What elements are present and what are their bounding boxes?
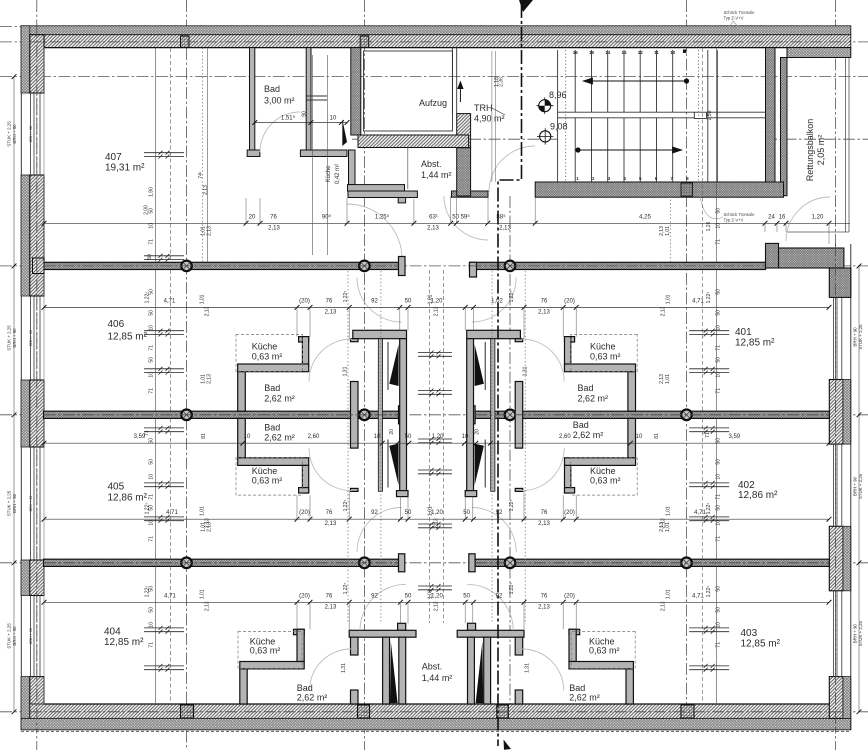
svg-text:0,63 m²: 0,63 m² xyxy=(252,476,283,486)
svg-text:Rettungsbalkon: Rettungsbalkon xyxy=(805,119,815,182)
svg-text:50: 50 xyxy=(147,254,153,260)
svg-text:BRH + 90: BRH + 90 xyxy=(853,327,858,347)
svg-text:50: 50 xyxy=(149,586,155,592)
svg-text:50: 50 xyxy=(149,310,155,316)
svg-text:92: 92 xyxy=(371,593,378,599)
svg-text:1,22⁵: 1,22⁵ xyxy=(706,586,712,598)
svg-text:2,62 m²: 2,62 m² xyxy=(297,692,328,702)
svg-text:20: 20 xyxy=(389,429,395,435)
svg-text:50: 50 xyxy=(149,438,155,444)
svg-text:BRH + 90: BRH + 90 xyxy=(12,493,17,513)
svg-text:81: 81 xyxy=(654,433,660,439)
svg-text:Küche: Küche xyxy=(590,342,616,352)
svg-text:4,25: 4,25 xyxy=(639,214,651,220)
svg-text:10: 10 xyxy=(149,622,155,628)
svg-text:STUK + 2,25: STUK + 2,25 xyxy=(7,121,12,147)
svg-text:2,62 m²: 2,62 m² xyxy=(573,430,604,440)
svg-text:20: 20 xyxy=(475,429,481,435)
svg-text:2,36: 2,36 xyxy=(498,77,504,87)
svg-text:Schöck Tronsole: Schöck Tronsole xyxy=(724,10,756,15)
svg-text:63¹: 63¹ xyxy=(429,214,438,220)
svg-text:12,85 m²: 12,85 m² xyxy=(741,638,781,649)
svg-text:Bad: Bad xyxy=(264,84,280,94)
svg-text:(20): (20) xyxy=(299,298,310,304)
svg-text:0,63 m²: 0,63 m² xyxy=(252,351,283,361)
svg-text:2,13: 2,13 xyxy=(427,225,439,231)
svg-text:10: 10 xyxy=(149,325,155,331)
svg-text:Bad: Bad xyxy=(573,420,589,430)
svg-text:Bad: Bad xyxy=(264,383,280,393)
svg-text:10: 10 xyxy=(149,474,155,480)
svg-text:20: 20 xyxy=(249,214,256,220)
svg-text:2,62 m²: 2,62 m² xyxy=(264,433,295,443)
svg-text:2,13: 2,13 xyxy=(538,604,550,610)
svg-text:10: 10 xyxy=(636,434,643,440)
svg-text:2,13: 2,13 xyxy=(659,522,665,532)
svg-text:2,13: 2,13 xyxy=(661,601,667,611)
svg-text:2,13: 2,13 xyxy=(206,374,212,384)
svg-text:402: 402 xyxy=(738,480,755,491)
svg-text:50: 50 xyxy=(463,510,470,516)
svg-text:50: 50 xyxy=(405,434,412,440)
svg-text:BRH + 90: BRH + 90 xyxy=(853,476,858,496)
svg-text:50: 50 xyxy=(405,593,412,599)
svg-text:11: 11 xyxy=(654,50,659,55)
svg-text:76: 76 xyxy=(270,214,277,220)
svg-text:16: 16 xyxy=(573,50,579,55)
svg-text:50: 50 xyxy=(149,505,155,511)
svg-text:1,01: 1,01 xyxy=(200,294,206,304)
svg-text:71: 71 xyxy=(149,494,155,500)
svg-text:1,01: 1,01 xyxy=(665,226,671,236)
svg-text:4,90 m²: 4,90 m² xyxy=(474,114,505,124)
svg-text:2,13: 2,13 xyxy=(206,522,212,532)
svg-text:1,22⁵: 1,22⁵ xyxy=(706,503,712,515)
svg-text:10: 10 xyxy=(462,434,469,440)
svg-text:2,13: 2,13 xyxy=(205,306,211,316)
svg-text:2,13: 2,13 xyxy=(325,309,337,315)
svg-text:STUK + 2,25: STUK + 2,25 xyxy=(7,325,12,351)
svg-text:Typ Z-V+V: Typ Z-V+V xyxy=(724,218,744,223)
svg-text:0,63 m²: 0,63 m² xyxy=(590,351,621,361)
svg-text:2,13: 2,13 xyxy=(203,185,209,195)
svg-text:16: 16 xyxy=(779,214,786,220)
svg-text:2,13: 2,13 xyxy=(205,601,211,611)
svg-text:1,22⁵: 1,22⁵ xyxy=(509,291,515,303)
svg-text:81: 81 xyxy=(201,433,207,439)
svg-text:Küche: Küche xyxy=(252,466,278,476)
svg-text:71: 71 xyxy=(705,432,711,438)
svg-text:50: 50 xyxy=(463,593,470,599)
svg-text:2,50: 2,50 xyxy=(707,110,713,120)
svg-text:1,22⁵: 1,22⁵ xyxy=(509,500,515,512)
svg-text:12: 12 xyxy=(638,50,644,55)
svg-text:71: 71 xyxy=(144,430,150,436)
svg-text:92: 92 xyxy=(496,510,503,516)
svg-text:2,13: 2,13 xyxy=(538,521,550,527)
svg-text:50: 50 xyxy=(149,208,155,214)
svg-text:Küche: Küche xyxy=(252,342,278,352)
svg-text:Abst.: Abst. xyxy=(421,159,442,169)
svg-text:50: 50 xyxy=(149,459,155,465)
svg-text:9,08: 9,08 xyxy=(550,122,568,132)
svg-text:(20): (20) xyxy=(299,593,310,599)
svg-text:1,31: 1,31 xyxy=(523,366,529,376)
svg-text:BRH + 90: BRH + 90 xyxy=(12,124,17,144)
svg-text:2,13: 2,13 xyxy=(661,306,667,316)
svg-text:71: 71 xyxy=(149,239,155,245)
svg-text:1,01: 1,01 xyxy=(428,506,434,516)
svg-text:1,01: 1,01 xyxy=(428,294,434,304)
svg-text:2,13: 2,13 xyxy=(325,521,337,527)
svg-text:STUK + 2,25: STUK + 2,25 xyxy=(7,490,12,516)
svg-text:4,71: 4,71 xyxy=(692,298,704,304)
svg-text:1,51⁵: 1,51⁵ xyxy=(281,115,296,122)
svg-text:(20): (20) xyxy=(564,298,575,304)
svg-text:12,85 m²: 12,85 m² xyxy=(735,338,775,349)
svg-text:1,25⁵: 1,25⁵ xyxy=(375,213,390,220)
svg-text:76: 76 xyxy=(541,510,548,516)
svg-text:(20): (20) xyxy=(564,510,575,516)
svg-text:92: 92 xyxy=(371,298,378,304)
svg-text:13: 13 xyxy=(621,50,627,55)
svg-text:3,00 m²: 3,00 m² xyxy=(264,96,295,106)
svg-text:Bad: Bad xyxy=(578,383,594,393)
svg-text:Küche: Küche xyxy=(326,165,332,183)
svg-text:50 59⁵: 50 59⁵ xyxy=(452,213,470,220)
svg-text:2,05 m²: 2,05 m² xyxy=(816,135,826,166)
svg-text:71: 71 xyxy=(149,388,155,394)
svg-text:1,44 m²: 1,44 m² xyxy=(422,673,453,683)
svg-text:92: 92 xyxy=(496,593,503,599)
svg-text:Bad: Bad xyxy=(264,423,280,433)
svg-text:2,13: 2,13 xyxy=(206,226,212,236)
svg-text:71: 71 xyxy=(149,642,155,648)
svg-text:Küche: Küche xyxy=(590,466,616,476)
svg-text:2,62 m²: 2,62 m² xyxy=(264,393,295,403)
svg-text:1,31: 1,31 xyxy=(341,663,347,673)
svg-text:1,31: 1,31 xyxy=(343,366,349,376)
svg-text:3,59: 3,59 xyxy=(728,434,740,440)
svg-text:2,62 m²: 2,62 m² xyxy=(578,393,609,403)
svg-text:12,86 m²: 12,86 m² xyxy=(108,493,148,504)
svg-text:50: 50 xyxy=(149,357,155,363)
svg-text:Aufzug: Aufzug xyxy=(419,98,447,108)
svg-text:BRH + 90: BRH + 90 xyxy=(29,628,33,644)
svg-text:1,01: 1,01 xyxy=(200,589,206,599)
svg-text:2,60: 2,60 xyxy=(308,434,320,440)
svg-text:4,71: 4,71 xyxy=(692,593,704,599)
svg-text:1,44 m²: 1,44 m² xyxy=(421,170,452,180)
svg-text:2,13: 2,13 xyxy=(499,225,511,231)
svg-text:90: 90 xyxy=(302,111,308,117)
svg-text:76: 76 xyxy=(326,593,333,599)
svg-text:2,60: 2,60 xyxy=(559,434,571,440)
svg-text:Schöck Tronsole: Schöck Tronsole xyxy=(724,212,756,217)
svg-text:10: 10 xyxy=(670,50,676,55)
svg-text:92: 92 xyxy=(371,510,378,516)
svg-text:401: 401 xyxy=(735,327,752,338)
svg-text:2,13: 2,13 xyxy=(538,309,550,315)
svg-text:(20): (20) xyxy=(299,510,310,516)
svg-text:STUK + 2,25: STUK + 2,25 xyxy=(7,623,12,649)
svg-text:BRH + 90: BRH + 90 xyxy=(853,624,858,644)
svg-text:406: 406 xyxy=(108,319,125,330)
svg-text:BRH + 90: BRH + 90 xyxy=(29,126,33,142)
svg-text:0,63 m²: 0,63 m² xyxy=(250,646,281,656)
svg-text:405: 405 xyxy=(108,482,125,493)
svg-text:1,01: 1,01 xyxy=(666,294,672,304)
svg-text:50: 50 xyxy=(149,289,155,295)
svg-text:2,13: 2,13 xyxy=(659,226,665,236)
svg-text:Abst.: Abst. xyxy=(422,662,443,672)
svg-text:1,01: 1,01 xyxy=(666,506,672,516)
svg-text:2,13: 2,13 xyxy=(325,604,337,610)
svg-text:71: 71 xyxy=(149,536,155,542)
svg-text:50: 50 xyxy=(405,510,412,516)
svg-text:2,13: 2,13 xyxy=(659,374,665,384)
svg-text:BRH + 90: BRH + 90 xyxy=(29,496,33,512)
svg-text:10: 10 xyxy=(149,223,155,229)
svg-text:1,26: 1,26 xyxy=(706,221,712,231)
svg-text:0,63 m²: 0,63 m² xyxy=(589,646,620,656)
svg-text:1,20: 1,20 xyxy=(812,214,824,220)
svg-text:2,13: 2,13 xyxy=(268,225,280,231)
svg-text:BRH + 90: BRH + 90 xyxy=(12,626,17,646)
svg-text:12,86 m²: 12,86 m² xyxy=(738,490,778,501)
svg-text:90⁵: 90⁵ xyxy=(322,213,332,220)
svg-text:1,01: 1,01 xyxy=(200,506,206,516)
svg-text:Typ Z-V+V: Typ Z-V+V xyxy=(724,16,744,21)
svg-text:4,71: 4,71 xyxy=(166,510,178,516)
svg-text:4,71: 4,71 xyxy=(694,510,706,516)
svg-text:24: 24 xyxy=(768,214,775,220)
svg-text:76: 76 xyxy=(541,298,548,304)
svg-text:1,22⁵: 1,22⁵ xyxy=(706,292,712,304)
svg-text:50: 50 xyxy=(405,298,412,304)
svg-text:2,62 m²: 2,62 m² xyxy=(569,692,600,702)
svg-text:0,63 m²: 0,63 m² xyxy=(590,476,621,486)
svg-text:BRH + 90: BRH + 90 xyxy=(12,328,17,348)
svg-text:12,85 m²: 12,85 m² xyxy=(104,637,144,648)
svg-text:2,13: 2,13 xyxy=(434,306,440,316)
svg-text:1,01: 1,01 xyxy=(665,522,671,532)
svg-text:10: 10 xyxy=(330,116,337,122)
svg-text:2,13: 2,13 xyxy=(434,518,440,528)
svg-text:1,22⁵: 1,22⁵ xyxy=(509,583,515,595)
svg-text:15: 15 xyxy=(589,50,595,55)
svg-text:71: 71 xyxy=(149,345,155,351)
svg-text:2,13: 2,13 xyxy=(434,601,440,611)
svg-text:(20): (20) xyxy=(564,593,575,599)
svg-text:19,31 m²: 19,31 m² xyxy=(105,162,145,173)
svg-text:1,31: 1,31 xyxy=(524,663,530,673)
svg-text:8,96: 8,96 xyxy=(549,90,567,100)
svg-text:1,01: 1,01 xyxy=(665,374,671,384)
svg-text:14: 14 xyxy=(605,50,611,55)
svg-text:76: 76 xyxy=(541,593,548,599)
svg-text:10: 10 xyxy=(244,434,251,440)
svg-text:74¹: 74¹ xyxy=(198,171,204,179)
svg-text:50: 50 xyxy=(149,607,155,613)
svg-text:1,01: 1,01 xyxy=(666,589,672,599)
svg-text:76: 76 xyxy=(326,298,333,304)
svg-text:0,42 m²: 0,42 m² xyxy=(335,164,341,184)
svg-text:BRH + 90: BRH + 90 xyxy=(29,330,33,346)
svg-text:1,90: 1,90 xyxy=(149,187,155,197)
svg-text:4,71: 4,71 xyxy=(164,298,176,304)
svg-text:12,85 m²: 12,85 m² xyxy=(108,332,148,343)
svg-text:TRH: TRH xyxy=(474,103,493,113)
svg-text:10: 10 xyxy=(374,434,381,440)
svg-text:76: 76 xyxy=(326,510,333,516)
